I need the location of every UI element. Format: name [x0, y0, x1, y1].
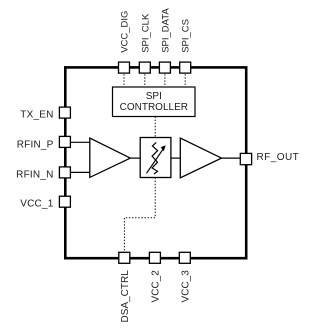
pin SPI_CLK	[139, 62, 150, 73]
svg-text:VCC_3: VCC_3	[180, 270, 191, 303]
pin RF_OUT	[240, 153, 251, 164]
wire: dashed stub pin SPI_CLK to SPI controller	[144, 68, 146, 87]
svg-text:RFIN_P: RFIN_P	[17, 140, 54, 151]
wire: dashed stub pin SPI_DATA to SPI controller	[164, 68, 166, 87]
svg-text:RFIN_N: RFIN_N	[16, 169, 53, 180]
svg-text:SPI_DATA: SPI_DATA	[160, 8, 171, 53]
amplifier A1	[90, 138, 131, 177]
wire: RFIN_P to amplifier A1	[70, 141, 90, 143]
pin VCC_3	[179, 252, 190, 263]
svg-text:CONTROLLER: CONTROLLER	[120, 102, 188, 113]
wire: amplifier A1 to attenuator	[130, 157, 140, 159]
pin TX_EN	[59, 107, 70, 118]
wire: amplifier A2 to RF_OUT pin	[222, 157, 241, 159]
attenuator DSA (variable attenuator)	[140, 138, 171, 178]
amplifier A2	[180, 138, 221, 178]
svg-text:VCC_1: VCC_1	[20, 199, 53, 210]
pin VCC_DIG	[119, 62, 130, 73]
pin SPI_DATA	[159, 62, 170, 73]
pin VCC_1	[59, 196, 70, 207]
SPI controller block U1	[113, 87, 196, 117]
pin SPI_CS	[180, 62, 191, 73]
svg-text:RF_OUT: RF_OUT	[257, 152, 300, 163]
wire: dashed stub pin VCC_DIG to SPI controller	[123, 68, 125, 87]
svg-text:SPI: SPI	[146, 91, 162, 102]
pin RFIN_P	[59, 136, 70, 147]
svg-text:SPI_CS: SPI_CS	[181, 19, 192, 53]
svg-text:VCC_DIG: VCC_DIG	[120, 11, 131, 53]
chip boundary	[65, 67, 246, 258]
wire: dashed stub pin SPI_CS to SPI controller	[184, 68, 186, 87]
svg-text:TX_EN: TX_EN	[20, 110, 53, 121]
zigzag element of attenuator	[152, 142, 158, 174]
svg-text:SPI_CLK: SPI_CLK	[140, 13, 151, 53]
svg-text:DSA_CTRL: DSA_CTRL	[120, 270, 131, 323]
pin RFIN_N	[59, 167, 70, 178]
arrow of variable attenuator	[147, 149, 164, 174]
svg-text:VCC_2: VCC_2	[151, 270, 162, 303]
pin DSA_CTRL	[119, 252, 130, 263]
wire: dashed control line SPI controller to attenuator	[154, 117, 156, 138]
wire: attenuator to amplifier A2	[171, 157, 181, 159]
wire: dashed control line attenuator to DSA_CTRL pin	[124, 178, 155, 253]
pin VCC_2	[149, 252, 160, 263]
wire: RFIN_N to amplifier A1	[70, 171, 90, 173]
